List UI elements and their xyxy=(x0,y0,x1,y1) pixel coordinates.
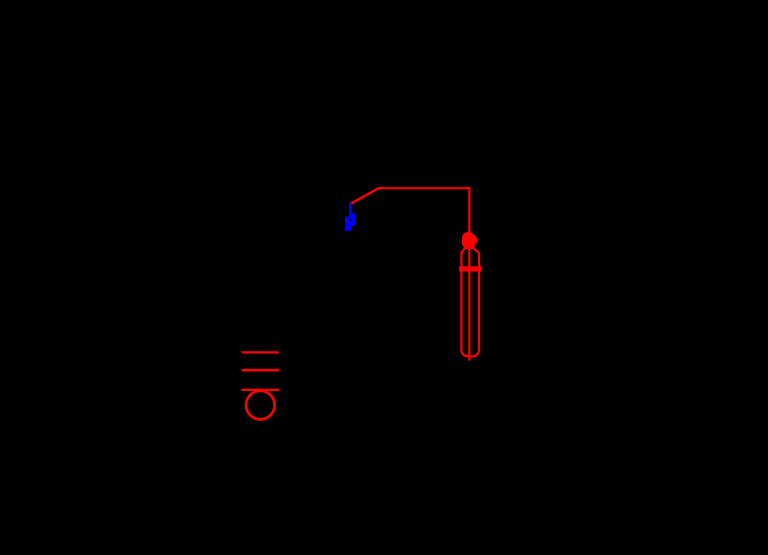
node A blue lead stub xyxy=(349,204,351,216)
cell BT1 lower collar band line xyxy=(459,269,482,272)
wire W1 vertical segment (red, drop into cell BT1, continues as centre electrode) xyxy=(468,188,470,359)
lamp L1 lower plate line xyxy=(241,389,279,391)
wire W1 horizontal segment (red, top run) xyxy=(379,187,470,189)
lamp L1 top plate line xyxy=(242,351,279,353)
connector clip icon at node A (blue glyph) xyxy=(345,203,356,231)
lamp L1 bulb circle xyxy=(246,391,275,420)
lamp L1 middle plate line xyxy=(242,369,279,372)
wire W1 diagonal segment (red, from node A up to corner) xyxy=(350,188,378,204)
cell BT1 body outline (red cylinder with domed shoulder and rounded base) xyxy=(461,248,479,356)
cell BT1 upper collar band line xyxy=(459,266,482,269)
cell BT1 positive terminal blob (red filled) xyxy=(462,232,477,247)
